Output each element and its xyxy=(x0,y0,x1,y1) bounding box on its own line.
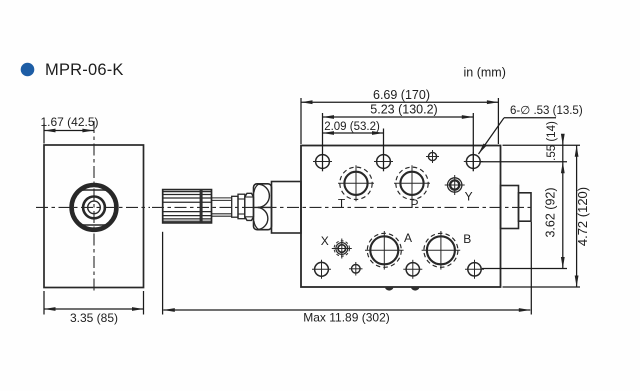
port Y xyxy=(445,175,465,195)
dimension Max 11.89 (302) xyxy=(163,222,532,315)
svg-text:2.09 (53.2): 2.09 (53.2) xyxy=(324,121,380,133)
mounting hole top-mid xyxy=(374,152,393,171)
svg-text:Max 11.89 (302): Max 11.89 (302) xyxy=(303,310,390,324)
dimension 3.35 (85) xyxy=(44,291,144,315)
dim line .55 / 3.62 xyxy=(562,134,564,269)
mounting hole top-right xyxy=(464,152,483,171)
side port step 1 xyxy=(501,186,519,229)
svg-text:P: P xyxy=(410,197,418,211)
main centerline xyxy=(152,206,531,208)
right-side extension lines xyxy=(481,134,581,287)
washer step xyxy=(238,194,245,219)
dimension 6.69 (170) xyxy=(301,98,498,144)
side view body xyxy=(44,145,144,288)
mounting hole bottom-left xyxy=(312,260,331,279)
hex body xyxy=(254,184,272,230)
svg-text:X: X xyxy=(321,234,329,248)
port A xyxy=(365,231,404,270)
side view inner circle xyxy=(88,201,101,214)
port X xyxy=(332,239,352,259)
svg-text:Y: Y xyxy=(465,190,473,204)
port P xyxy=(394,165,430,201)
svg-text:B: B xyxy=(463,232,471,246)
dimension 1.67 (42.5) xyxy=(44,124,94,144)
svg-text:3.62 (92): 3.62 (92) xyxy=(544,187,558,237)
side port step 2 xyxy=(519,193,532,221)
mounting hole bottom-right xyxy=(465,260,484,279)
port B xyxy=(422,231,461,270)
svg-text:A: A xyxy=(404,231,412,245)
side view vertical centerline xyxy=(93,121,95,292)
mounting hole top-left xyxy=(313,152,332,171)
svg-text:MPR-06-K: MPR-06-K xyxy=(45,61,124,79)
side view horizontal centerline xyxy=(36,206,150,208)
mounting hole bottom-mid xyxy=(403,260,422,279)
side view middle ring xyxy=(83,197,105,219)
knob body xyxy=(163,190,212,223)
svg-text:6.69 (170): 6.69 (170) xyxy=(373,88,430,102)
svg-text:5.23 (130.2): 5.23 (130.2) xyxy=(370,102,437,116)
side view plug profile xyxy=(71,190,117,225)
svg-text:.55 (14): .55 (14) xyxy=(546,121,558,161)
dimension 5.23 (130.2) xyxy=(323,113,474,171)
small hole bottom xyxy=(349,262,363,276)
knob groove band xyxy=(200,190,203,223)
svg-text:4.72 (120): 4.72 (120) xyxy=(575,187,590,246)
dimension 2.09 (53.2) xyxy=(323,129,384,172)
svg-text:in (mm): in (mm) xyxy=(464,66,506,80)
title bullet xyxy=(21,63,35,77)
side view outer ring xyxy=(72,185,117,230)
valve body outline xyxy=(301,146,501,288)
port T xyxy=(338,165,374,201)
locating pin bumps xyxy=(385,287,393,291)
svg-text:1.67 (42.5): 1.67 (42.5) xyxy=(40,115,98,129)
knob knurling ribs xyxy=(163,192,212,222)
dim line 4.72 xyxy=(576,145,578,287)
svg-text:T: T xyxy=(338,196,346,210)
cap xyxy=(272,182,302,234)
leader 6-dia .53 (13.5) xyxy=(479,118,557,154)
small hole top xyxy=(426,150,439,163)
threaded shaft xyxy=(212,198,233,216)
svg-text:6-∅ .53 (13.5): 6-∅ .53 (13.5) xyxy=(510,105,583,117)
locknut xyxy=(245,193,254,220)
shaft step xyxy=(232,196,238,217)
svg-text:3.35 (85): 3.35 (85) xyxy=(70,311,118,325)
